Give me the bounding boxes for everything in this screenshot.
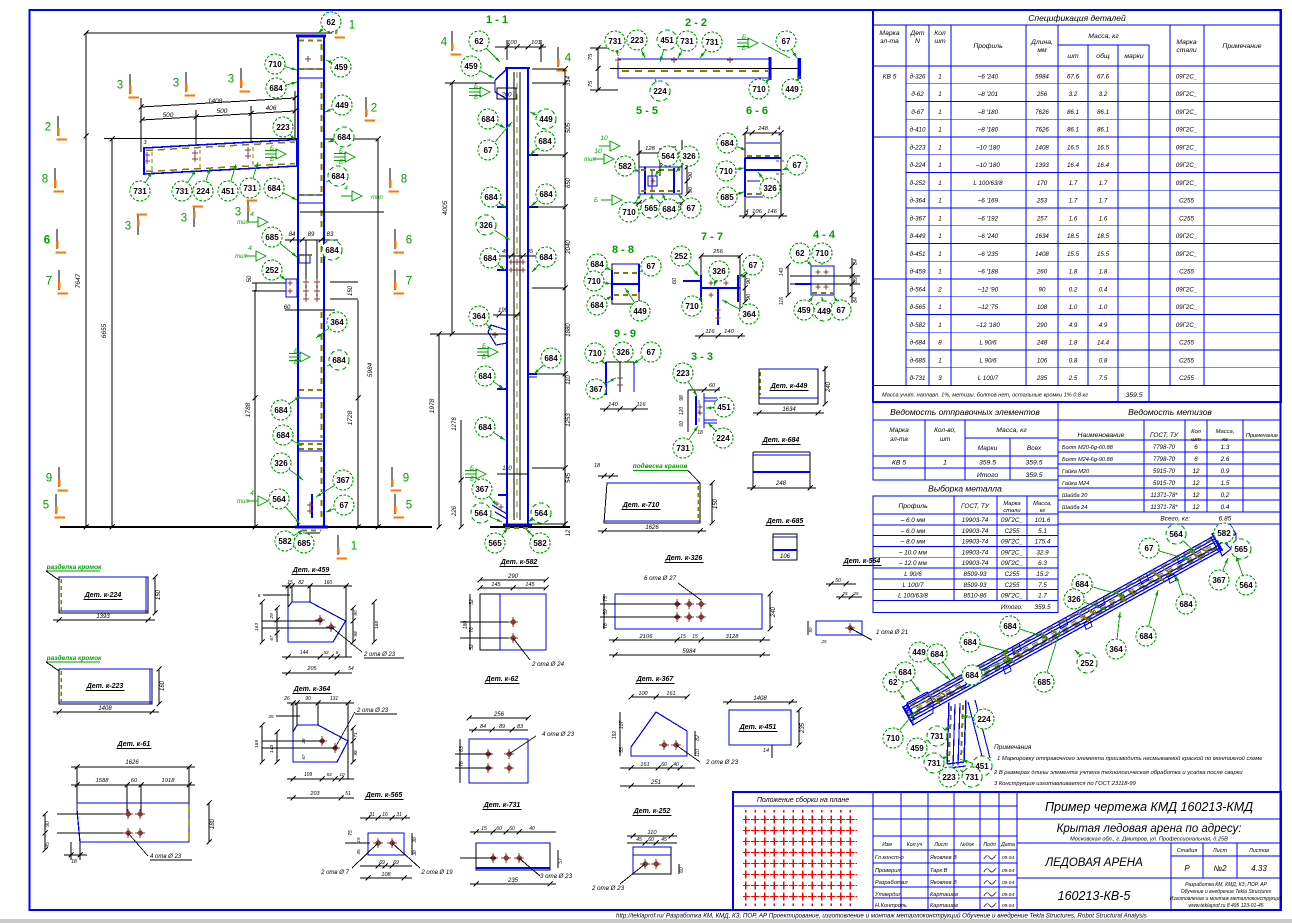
svg-text:Б: Б <box>339 160 343 166</box>
svg-text:260: 260 <box>1036 269 1048 276</box>
stiffener tabs <box>972 665 981 676</box>
svg-text:–8 ′201: –8 ′201 <box>977 91 998 98</box>
svg-text:29: 29 <box>269 613 275 620</box>
svg-text:67: 67 <box>793 161 802 170</box>
svg-text:224: 224 <box>716 434 730 443</box>
svg-text:564: 564 <box>474 509 488 518</box>
svg-text:– 6.0 мм: – 6.0 мм <box>900 517 926 524</box>
svg-text:№док: №док <box>960 842 974 848</box>
section mark 3 <box>125 215 147 236</box>
svg-text:160: 160 <box>160 680 166 691</box>
svg-text:710: 710 <box>685 302 699 311</box>
svg-text:564: 564 <box>1239 581 1253 590</box>
svg-text:1253: 1253 <box>566 413 572 427</box>
small tab <box>299 255 310 263</box>
svg-text:326: 326 <box>616 348 630 357</box>
callout 564 <box>471 503 502 523</box>
callout 252 <box>262 260 286 280</box>
svg-text:62: 62 <box>327 18 336 27</box>
2-2 dims <box>597 48 599 90</box>
section mark 3 <box>117 74 139 98</box>
svg-text:161: 161 <box>640 762 649 768</box>
svg-text:82: 82 <box>298 580 304 586</box>
svg-text:Стадия: Стадия <box>1177 848 1198 854</box>
svg-text:–10 ′180: –10 ′180 <box>975 162 1000 169</box>
svg-text:2: 2 <box>45 122 51 134</box>
svg-text:582: 582 <box>1217 529 1231 538</box>
svg-text:7626: 7626 <box>1035 109 1049 116</box>
svg-text:09Г2С_: 09Г2С_ <box>1176 91 1198 98</box>
svg-text:Б: Б <box>742 46 746 52</box>
svg-text:Дет: Дет <box>909 30 924 37</box>
svg-text:52: 52 <box>469 599 475 605</box>
svg-text:3: 3 <box>117 80 123 92</box>
svg-text:100: 100 <box>638 691 648 697</box>
member right end plates <box>1212 524 1236 545</box>
svg-text:163: 163 <box>254 623 260 631</box>
svg-text:7: 7 <box>46 276 52 288</box>
section mark 4 <box>557 47 572 71</box>
svg-text:364: 364 <box>742 310 756 319</box>
callout 684 <box>481 187 506 208</box>
svg-text:д-326: д-326 <box>910 73 926 80</box>
svg-text:Кол: Кол <box>934 30 946 37</box>
svg-text:1.7: 1.7 <box>1038 593 1047 600</box>
callout 710 <box>265 54 297 74</box>
svg-text:Дет. к-252: Дет. к-252 <box>633 808 671 815</box>
svg-text:364: 364 <box>1109 645 1123 654</box>
svg-text:150: 150 <box>348 285 354 296</box>
svg-text:С255: С255 <box>1004 528 1020 535</box>
svg-text:359.5: 359.5 <box>1125 392 1142 399</box>
hanging vertical member <box>947 702 949 764</box>
svg-text:684: 684 <box>590 301 604 310</box>
svg-text:15.5: 15.5 <box>1097 251 1110 258</box>
svg-text:248: 248 <box>757 126 768 132</box>
svg-text:2 отв Ø 24: 2 отв Ø 24 <box>531 661 565 668</box>
callout 449 <box>325 95 352 115</box>
2-2 beam <box>618 59 770 78</box>
svg-text:684: 684 <box>276 431 290 440</box>
1-1 column <box>506 69 508 524</box>
svg-text:45: 45 <box>636 837 642 843</box>
svg-text:449: 449 <box>539 115 553 124</box>
svg-text:2 отв Ø 23: 2 отв Ø 23 <box>705 759 739 766</box>
svg-text:шт: шт <box>940 436 951 443</box>
svg-text:140: 140 <box>724 329 734 335</box>
svg-text:2 отв Ø 19: 2 отв Ø 19 <box>420 870 453 876</box>
column weld dashes <box>301 54 303 56</box>
side bracket plate <box>286 279 297 297</box>
svg-text:406: 406 <box>266 105 277 112</box>
svg-text:9: 9 <box>46 473 52 485</box>
svg-text:www.teklaprof.ru 8 49: www.teklaprof.ru 8 495 123-01-45 <box>1188 903 1263 909</box>
callout 731 <box>960 767 982 787</box>
svg-text:223: 223 <box>942 773 956 782</box>
svg-text:8: 8 <box>258 593 261 598</box>
svg-text:564: 564 <box>661 152 675 161</box>
svg-text:685: 685 <box>720 193 734 202</box>
svg-text:Б: Б <box>470 477 474 483</box>
section mark 3 <box>181 207 203 228</box>
svg-text:83: 83 <box>327 232 334 238</box>
svg-text:731: 731 <box>930 732 944 741</box>
callout 252 <box>1075 650 1097 673</box>
callout 684 <box>960 632 1010 652</box>
svg-text:9 - 9: 9 - 9 <box>614 328 636 340</box>
svg-text:2106: 2106 <box>639 634 654 640</box>
callout 326 <box>271 453 303 480</box>
svg-text:60: 60 <box>672 277 678 284</box>
svg-text:Б: Б <box>470 466 474 472</box>
svg-text:2 отв Ø 7: 2 отв Ø 7 <box>320 870 349 876</box>
callout 731 <box>240 162 260 198</box>
svg-text:7626: 7626 <box>1035 127 1049 134</box>
callout 223 <box>273 117 295 140</box>
svg-text:09.04: 09.04 <box>1002 880 1014 886</box>
svg-text:359.5: 359.5 <box>1025 460 1042 467</box>
svg-text:69: 69 <box>393 860 399 866</box>
svg-text:Дет. к-684: Дет. к-684 <box>762 437 800 444</box>
callout 684 <box>587 295 612 315</box>
svg-text:359.5: 359.5 <box>979 460 996 467</box>
svg-text:С255: С255 <box>1179 375 1194 382</box>
svg-text:50: 50 <box>247 275 253 282</box>
svg-text:Положение сборки на плане: Положение сборки на плане <box>757 796 849 804</box>
svg-text:тип: тип <box>237 499 249 505</box>
svg-text:2.6: 2.6 <box>1220 456 1230 463</box>
svg-text:1.7: 1.7 <box>1069 180 1078 187</box>
svg-text:86.1: 86.1 <box>1097 127 1109 134</box>
svg-text:116: 116 <box>636 402 646 408</box>
svg-text:710: 710 <box>268 60 282 69</box>
bracket lines top <box>298 68 325 70</box>
weld symbol <box>352 191 362 201</box>
svg-text:Б: Б <box>474 84 478 90</box>
svg-text:1: 1 <box>349 20 355 32</box>
svg-text:1788: 1788 <box>245 402 252 417</box>
svg-text:67: 67 <box>782 37 791 46</box>
weld symbol <box>276 149 286 159</box>
svg-text:–6 ′188: –6 ′188 <box>977 269 999 276</box>
polozhenie sborki cell <box>872 792 874 910</box>
beam weld dashes <box>146 142 295 151</box>
svg-text:175.4: 175.4 <box>1035 539 1051 546</box>
dim 1788 <box>254 290 256 527</box>
svg-text:650: 650 <box>566 177 572 188</box>
svg-text:684: 684 <box>930 650 944 659</box>
callout 684 <box>532 247 556 272</box>
svg-text:564: 564 <box>534 509 548 518</box>
svg-text:Разработка КМ, КМД, КЗ, ПОР, А: Разработка КМ, КМД, КЗ, ПОР, АР <box>1185 882 1267 888</box>
svg-text:Дет. к-685: Дет. к-685 <box>766 518 804 525</box>
svg-text:–6 ′240: –6 ′240 <box>977 73 999 80</box>
svg-text:223: 223 <box>630 36 644 45</box>
svg-text:116: 116 <box>779 297 785 305</box>
svg-text:684: 684 <box>662 205 676 214</box>
svg-text:107: 107 <box>619 721 625 730</box>
callout 67 <box>640 256 661 276</box>
svg-text:09Г2С_: 09Г2С_ <box>1176 127 1198 134</box>
svg-text:5: 5 <box>43 500 49 512</box>
svg-text:Карташов: Карташов <box>930 892 958 898</box>
svg-text:16.5: 16.5 <box>1067 144 1080 151</box>
svg-text:1.8: 1.8 <box>1099 269 1108 276</box>
svg-text:Б: Б <box>270 157 274 163</box>
svg-text:8: 8 <box>42 174 48 186</box>
callout 451 <box>218 164 238 201</box>
svg-text:1.7: 1.7 <box>1099 180 1108 187</box>
svg-text:684: 684 <box>269 84 283 93</box>
svg-text:205: 205 <box>306 666 317 672</box>
svg-text:Всего, кг:: Всего, кг: <box>1160 516 1190 523</box>
svg-text:Масса,: Масса, <box>1033 501 1052 507</box>
callout 684 <box>480 248 505 270</box>
callout 684 <box>1176 576 1196 614</box>
svg-text:98: 98 <box>353 750 359 756</box>
svg-text:1634: 1634 <box>1035 233 1049 240</box>
callout 684 <box>326 166 348 186</box>
svg-text:326: 326 <box>1067 595 1081 604</box>
svg-text:161: 161 <box>666 691 675 697</box>
bolt gauge lines <box>305 240 307 300</box>
svg-text:1: 1 <box>938 251 941 258</box>
svg-text:Дет. к-61: Дет. к-61 <box>117 741 151 748</box>
svg-text:1393: 1393 <box>1035 162 1049 169</box>
svg-text:0.8: 0.8 <box>1099 357 1108 364</box>
svg-text:1.0: 1.0 <box>1099 304 1108 311</box>
svg-text:09Г2С_: 09Г2С_ <box>1176 322 1198 329</box>
svg-text:7798-70: 7798-70 <box>1153 457 1176 463</box>
svg-text:75: 75 <box>348 830 354 836</box>
svg-text:д-252: д-252 <box>910 180 926 187</box>
svg-text:Карташов: Карташов <box>930 903 958 909</box>
svg-text:2 - 2: 2 - 2 <box>685 17 707 29</box>
section mark 5 <box>394 494 413 518</box>
svg-text:565: 565 <box>488 539 502 548</box>
svg-text:106: 106 <box>780 554 791 560</box>
svg-text:L 90/6: L 90/6 <box>979 357 997 364</box>
svg-text:110: 110 <box>566 375 572 385</box>
svg-text:54: 54 <box>348 666 354 672</box>
svg-text:67: 67 <box>269 635 275 641</box>
svg-text:Дет. к-364: Дет. к-364 <box>293 686 331 693</box>
svg-text:684: 684 <box>965 671 979 680</box>
svg-text:63: 63 <box>459 746 465 752</box>
svg-text:–8 ′180: –8 ′180 <box>977 127 999 134</box>
svg-text:–6 ′169: –6 ′169 <box>977 198 999 205</box>
svg-text:ЛЕДОВАЯ АРЕНА: ЛЕДОВАЯ АРЕНА <box>1044 857 1143 869</box>
bracket mid2 (388) <box>299 389 324 391</box>
svg-text:марки: марки <box>1124 53 1143 60</box>
callout 684 <box>1072 574 1125 596</box>
svg-text:Утвердил: Утвердил <box>874 892 902 898</box>
section mark 8 <box>42 168 64 192</box>
svg-text:12: 12 <box>1192 468 1200 475</box>
svg-text:684: 684 <box>478 372 492 381</box>
callout 451 <box>706 397 734 417</box>
svg-text:4: 4 <box>250 490 254 497</box>
svg-text:146: 146 <box>767 209 777 215</box>
svg-text:8: 8 <box>401 174 407 186</box>
svg-text:110: 110 <box>502 466 512 472</box>
svg-text:–10 ′180: –10 ′180 <box>975 144 1000 151</box>
svg-text:разделка кромок: разделка кромок <box>46 563 102 571</box>
svg-text:109: 109 <box>304 772 313 778</box>
callout 710 <box>716 161 744 181</box>
svg-text:6.85: 6.85 <box>1219 516 1232 523</box>
svg-text:д-449: д-449 <box>910 233 926 240</box>
callout 67 <box>776 31 797 58</box>
callout 364 <box>722 300 759 324</box>
svg-text:731: 731 <box>676 444 690 453</box>
svg-text:84: 84 <box>853 259 859 265</box>
svg-text:160213-КВ-5: 160213-КВ-5 <box>1058 889 1131 903</box>
svg-text:http://teklaprof.ru/ Разрабо: http://teklaprof.ru/ Разработка КМ, КМД,… <box>616 913 1147 920</box>
weld symbol <box>480 87 490 97</box>
svg-text:Листов: Листов <box>1248 848 1269 854</box>
svg-text:2: 2 <box>371 103 377 115</box>
callout 67 <box>739 255 763 278</box>
svg-text:90: 90 <box>746 293 752 300</box>
svg-text:1: 1 <box>938 322 941 329</box>
svg-text:684: 684 <box>898 668 912 677</box>
svg-text:– 6.0 мм: – 6.0 мм <box>900 528 926 535</box>
svg-text:0.4: 0.4 <box>1221 504 1230 511</box>
1-1 left dims <box>451 83 453 334</box>
svg-text:Дет. к-565: Дет. к-565 <box>365 792 403 799</box>
dim 1728 <box>357 300 359 527</box>
svg-text:09Г2С_: 09Г2С_ <box>1176 233 1198 240</box>
svg-text:684: 684 <box>1075 580 1089 589</box>
svg-text:684: 684 <box>1003 622 1017 631</box>
tab 441-451 <box>298 440 325 442</box>
svg-text:565: 565 <box>1234 545 1248 554</box>
svg-text:15: 15 <box>287 580 293 586</box>
section mark 2 <box>365 97 378 121</box>
svg-text:50: 50 <box>808 627 813 633</box>
callout 326 <box>758 172 780 198</box>
callout 684 <box>264 178 297 200</box>
svg-text:140: 140 <box>779 268 785 277</box>
callout 684 <box>1000 616 1048 638</box>
svg-text:д-564: д-564 <box>910 286 926 293</box>
svg-text:Спецификация деталей: Спецификация деталей <box>1028 13 1126 23</box>
callout 326 <box>476 215 510 240</box>
svg-text:1: 1 <box>938 162 941 169</box>
svg-text:6.3: 6.3 <box>1038 560 1047 567</box>
svg-text:59: 59 <box>603 609 609 615</box>
svg-text:3 Конструкция изготавливается: 3 Конструкция изготавливается по ГОСТ 23… <box>994 781 1137 787</box>
svg-text:326: 326 <box>763 184 777 193</box>
svg-text:1: 1 <box>938 109 941 116</box>
svg-text:д-459: д-459 <box>910 269 926 276</box>
callout 710 <box>585 343 605 364</box>
svg-text:40: 40 <box>673 762 679 768</box>
svg-text:09Г2С_: 09Г2С_ <box>1176 73 1198 80</box>
svg-text:Профиль: Профиль <box>898 503 928 510</box>
svg-text:0.4: 0.4 <box>1099 286 1108 293</box>
callout 731 <box>700 32 722 58</box>
svg-text:62: 62 <box>796 249 805 258</box>
svg-text:449: 449 <box>817 307 831 316</box>
svg-text:4: 4 <box>565 53 572 65</box>
svg-text:60: 60 <box>496 826 502 832</box>
svg-text:общ: общ <box>1096 52 1110 60</box>
svg-text:5984: 5984 <box>1035 73 1049 80</box>
beam dims 500 500 406 <box>142 111 295 120</box>
svg-text:0.8: 0.8 <box>1069 357 1078 364</box>
callout 710 <box>584 271 611 291</box>
signature block <box>900 792 902 910</box>
callout 731 <box>677 31 697 58</box>
svg-text:Лист: Лист <box>933 842 948 848</box>
callout 565 <box>641 193 661 218</box>
svg-text:С255: С255 <box>1179 340 1194 347</box>
2-2 end plates <box>769 57 772 80</box>
svg-text:248: 248 <box>1036 340 1048 347</box>
svg-text:684: 684 <box>274 406 288 415</box>
svg-text:Болт М24-6g-90.88: Болт М24-6g-90.88 <box>1062 457 1114 463</box>
svg-text:8 - 8: 8 - 8 <box>612 244 634 256</box>
svg-text:Н.Контроль: Н.Контроль <box>875 903 907 909</box>
svg-text:75: 75 <box>588 53 594 60</box>
beam dim 1408 <box>141 98 295 107</box>
callout 684 <box>266 78 297 98</box>
svg-text:2.5: 2.5 <box>1068 375 1078 382</box>
dim 6655 <box>111 139 113 527</box>
title block right <box>1016 792 1018 910</box>
svg-text:Марка: Марка <box>879 30 900 37</box>
svg-text:1626: 1626 <box>125 760 139 766</box>
svg-text:364: 364 <box>330 318 344 327</box>
column left flange <box>297 35 299 527</box>
callout 731 <box>172 170 196 201</box>
section mark 1 <box>335 14 356 38</box>
svg-text:684: 684 <box>484 193 498 202</box>
svg-text:98: 98 <box>679 395 685 401</box>
svg-text:Яковлев В: Яковлев В <box>929 880 957 886</box>
svg-text:710: 710 <box>886 734 900 743</box>
svg-text:45: 45 <box>502 249 509 255</box>
svg-text:684: 684 <box>483 254 497 263</box>
svg-text:50: 50 <box>679 421 685 427</box>
svg-text:1.7: 1.7 <box>1099 198 1108 205</box>
callout 67 <box>782 155 807 175</box>
svg-text:684: 684 <box>325 246 339 255</box>
svg-text:Б: Б <box>594 198 598 204</box>
svg-text:2: 2 <box>937 286 942 293</box>
callout 67 <box>633 342 661 364</box>
callout 449 <box>625 288 650 321</box>
callout 684 <box>962 658 1012 685</box>
callout 684 <box>659 193 679 219</box>
svg-text:710: 710 <box>815 249 829 258</box>
svg-text:С255: С255 <box>1179 269 1194 276</box>
svg-text:Б: Б <box>482 355 486 361</box>
svg-text:6: 6 <box>44 235 50 247</box>
svg-text:367: 367 <box>475 485 489 494</box>
svg-text:76: 76 <box>603 623 609 629</box>
svg-text:10: 10 <box>594 148 602 155</box>
svg-text:Дет. к-62: Дет. к-62 <box>485 676 519 683</box>
callout 326 <box>709 261 729 286</box>
svg-text:стали: стали <box>1176 47 1197 54</box>
svg-text:С255: С255 <box>1004 582 1020 589</box>
svg-text:90: 90 <box>45 821 51 827</box>
svg-text:223: 223 <box>676 369 690 378</box>
svg-text:Дет. к-449: Дет. к-449 <box>770 383 808 390</box>
